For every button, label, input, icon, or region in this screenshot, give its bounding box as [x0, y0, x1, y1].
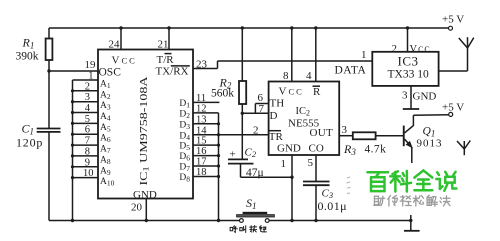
svg-text:IC3: IC3 — [398, 53, 419, 68]
wire DATA net to IC3 pin 1 — [218, 61, 373, 77]
svg-text:20: 20 — [131, 202, 143, 214]
capacitor C2 47u electrolytic — [228, 147, 292, 180]
capacitor C1 120p — [16, 71, 61, 221]
svg-text:VCC: VCC — [410, 44, 431, 55]
watermark white panel — [351, 164, 500, 217]
svg-text:GND: GND — [277, 142, 301, 154]
svg-text:1: 1 — [361, 49, 367, 61]
ghost marks (component hidden by watermark) — [347, 177, 351, 194]
wires IC1 data pin stubs D1-D8 (pins 11-18) — [193, 102, 219, 176]
svg-text:IC2: IC2 — [296, 106, 311, 118]
wire ground rail (right of S1) — [269, 220, 411, 222]
svg-text:2: 2 — [392, 43, 398, 55]
svg-text:D6: D6 — [179, 152, 190, 163]
svg-text:24: 24 — [109, 39, 121, 51]
svg-text:TX/RX: TX/RX — [156, 66, 189, 78]
svg-text:D1: D1 — [179, 99, 190, 110]
IC U1 encoder IC1 UM9758-108A body — [98, 50, 193, 202]
svg-text:1: 1 — [88, 71, 93, 82]
svg-text:A10: A10 — [100, 177, 115, 188]
svg-text:5: 5 — [308, 157, 314, 169]
wire NE555 pin 1 GND to ground rail — [281, 155, 294, 222]
IC timer IC2 NE555 body — [269, 82, 340, 156]
node +5V terminal (top right) — [442, 14, 464, 31]
svg-text:C2: C2 — [245, 147, 257, 160]
svg-text:OUT: OUT — [310, 127, 334, 139]
svg-text:A1: A1 — [100, 80, 111, 91]
svg-text:D4: D4 — [179, 131, 190, 142]
svg-text:4: 4 — [306, 70, 312, 82]
svg-text:GND: GND — [413, 91, 437, 103]
svg-text:VCC: VCC — [112, 55, 137, 67]
node C2 / NE555 pin1 junction — [290, 176, 293, 179]
svg-text:23: 23 — [196, 59, 208, 71]
wire IC1 pin 21 T/R to +5V rail — [158, 26, 171, 50]
svg-text:+5 V: +5 V — [442, 102, 464, 114]
wire IC1 pin 23 TX/RX to DATA line — [193, 59, 218, 71]
svg-text:12: 12 — [196, 104, 207, 115]
switch S1 pushbutton (call button) — [237, 196, 275, 223]
svg-text:A6: A6 — [100, 134, 111, 145]
logo text 百科全说 (hand-drawn glyphs) — [367, 172, 388, 191]
svg-text:390k: 390k — [16, 51, 39, 63]
svg-text:T/R: T/R — [157, 54, 175, 66]
resistor R3 4.7k — [339, 124, 403, 157]
wire to NE555 pin 7 D — [242, 112, 268, 114]
svg-text:11: 11 — [196, 93, 206, 104]
svg-text:OSC: OSC — [99, 66, 122, 78]
svg-text:3: 3 — [85, 92, 90, 103]
svg-text:16: 16 — [196, 146, 207, 157]
svg-text:15: 15 — [196, 136, 207, 147]
wire +5V top supply rail — [49, 27, 449, 29]
svg-text:A5: A5 — [100, 123, 111, 134]
svg-text:17: 17 — [196, 157, 207, 168]
svg-text:19: 19 — [85, 59, 97, 71]
svg-text:D8: D8 — [179, 173, 190, 184]
pin numbers 1-10 — [83, 71, 94, 180]
svg-text:8: 8 — [85, 146, 90, 157]
wire IC1 pin 20 GND to ground rail — [131, 199, 148, 223]
svg-text:4.7k: 4.7k — [365, 144, 387, 156]
wire to NE555 pin 6 TH — [255, 104, 268, 114]
svg-text:D: D — [270, 110, 278, 122]
node OSC junction (R1/C1/pin19) — [47, 69, 50, 72]
svg-text:4: 4 — [85, 103, 91, 114]
wires IC1 address pin stubs A1-A10 (pins 1-10) — [73, 80, 99, 178]
svg-text:+: + — [230, 149, 236, 161]
svg-text:9013: 9013 — [417, 138, 443, 150]
svg-text:120p: 120p — [16, 136, 43, 150]
svg-text:A2: A2 — [100, 90, 111, 101]
capacitor C3 0.01u — [303, 182, 347, 223]
svg-text:13: 13 — [196, 114, 207, 125]
svg-text:TH: TH — [270, 98, 285, 110]
svg-text:6: 6 — [85, 125, 90, 136]
svg-text:21: 21 — [158, 39, 169, 51]
svg-text:3: 3 — [342, 124, 348, 136]
svg-text:+5 V: +5 V — [442, 14, 464, 26]
svg-text:A4: A4 — [100, 112, 111, 123]
svg-text:14: 14 — [196, 125, 207, 136]
svg-text:D7: D7 — [179, 163, 190, 174]
svg-text:VCC: VCC — [279, 86, 304, 98]
pin numbers 11-18 — [196, 93, 207, 178]
svg-text:1: 1 — [281, 158, 287, 170]
svg-text:DATA: DATA — [335, 65, 367, 77]
node +5V terminal (collector) — [442, 102, 464, 117]
svg-text:A9: A9 — [100, 166, 111, 177]
svg-text:5: 5 — [85, 114, 90, 125]
antenna (lower right) — [457, 141, 470, 156]
ground (rail end, bottom right) — [404, 215, 420, 231]
node R2 / TH / D junction — [241, 112, 244, 115]
svg-text:A3: A3 — [100, 101, 111, 112]
logo subtitle 助你轻松解决 — [374, 196, 385, 206]
wire address bus (A1-A10 common) down to ground rail — [71, 80, 74, 222]
IC transmitter IC3 TX3310 body — [372, 52, 438, 86]
svg-text:GND: GND — [133, 189, 157, 201]
svg-text:2: 2 — [85, 81, 90, 92]
wire IC1 pin 14 / data bus to NE555 pin 2 TR — [193, 134, 269, 136]
transistor Q1 9013 NPN — [403, 115, 449, 163]
svg-text:8: 8 — [283, 70, 289, 82]
wire IC1 pin 24 Vcc to +5V rail — [109, 26, 123, 50]
svg-text:7: 7 — [259, 103, 265, 115]
wire ground rail (left of S1) — [49, 220, 240, 222]
svg-text:2: 2 — [253, 125, 259, 137]
svg-text:3: 3 — [402, 90, 408, 102]
labels A1-A10 — [100, 80, 115, 188]
svg-text:9: 9 — [85, 157, 90, 168]
svg-text:D2: D2 — [179, 110, 190, 121]
svg-text:A8: A8 — [100, 155, 111, 166]
wire data bus (D2-D8 common) down to ground rail — [217, 113, 220, 222]
svg-text:D3: D3 — [179, 120, 190, 130]
resistor R2 560k — [211, 26, 246, 159]
svg-text:7: 7 — [85, 136, 90, 147]
resistor R1 390k — [16, 28, 53, 71]
svg-text:TX33 10: TX33 10 — [388, 69, 429, 81]
svg-text:CO: CO — [309, 142, 324, 154]
wire NE555 pin 5 CO to C3 — [308, 155, 317, 181]
svg-text:TR: TR — [269, 131, 284, 143]
svg-text:R: R — [313, 86, 321, 98]
antenna (top right) — [439, 37, 474, 71]
wire OSC net to IC1 pin 19 — [49, 70, 98, 72]
label 呼叫按钮 (call button) — [230, 226, 237, 233]
svg-text:0.01μ: 0.01μ — [318, 199, 347, 213]
svg-text:47μ: 47μ — [246, 167, 264, 179]
svg-text:560k: 560k — [211, 88, 234, 100]
svg-text:A7: A7 — [100, 145, 111, 156]
svg-text:10: 10 — [83, 168, 94, 179]
svg-text:18: 18 — [196, 167, 207, 178]
svg-text:D5: D5 — [179, 142, 190, 153]
ground IC3 pin 3 — [402, 86, 436, 109]
wire IC3 pin 2 Vcc to +5V rail — [392, 26, 431, 55]
wire NE555 pin 8 Vcc to +5V rail — [283, 26, 293, 82]
labels D1-D8 — [179, 99, 190, 184]
wire NE555 pin 4 R to +5V rail — [306, 26, 317, 82]
